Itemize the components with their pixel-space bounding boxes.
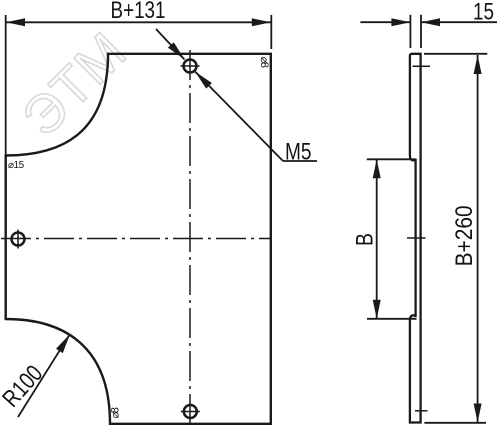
- vertical centerline through holes: [189, 50, 191, 428]
- extension line left: [5, 15, 7, 155]
- arrowhead bottom: [373, 300, 381, 319]
- arrowhead at hole: [168, 42, 185, 59]
- arrowhead right: [252, 18, 271, 26]
- leader line: [156, 29, 185, 60]
- watermark ETM logo text: [11, 21, 138, 148]
- leader M5 with label: [195, 72, 317, 166]
- arrowhead left: [391, 18, 410, 26]
- leader R100 with label: [0, 334, 70, 417]
- svg-text:15: 15: [473, 0, 494, 26]
- arrowhead top: [373, 159, 381, 178]
- hole circle: [12, 233, 25, 246]
- extension line bottom: [424, 422, 486, 424]
- svg-text:B: B: [352, 233, 379, 246]
- svg-text:⌀8: ⌀8: [109, 407, 121, 418]
- hole circle: [184, 60, 197, 73]
- dimension line right segment: [421, 21, 497, 23]
- dimension B side view: [352, 159, 417, 318]
- arrowhead top: [474, 55, 482, 74]
- side view centerline tick middle: [407, 237, 426, 239]
- arrowhead right: [421, 18, 440, 26]
- dimension B+131: [6, 0, 272, 155]
- horizontal centerline: [1, 238, 271, 240]
- extension line left: [409, 15, 411, 48]
- arrowhead at arc: [56, 334, 70, 353]
- side view outline: [410, 54, 421, 423]
- side view centerline tick bottom: [415, 410, 428, 412]
- svg-text:B+260: B+260: [451, 205, 478, 266]
- side view centerline tick top: [413, 65, 431, 67]
- leader shelf: [283, 160, 317, 162]
- hole circle: [184, 405, 197, 418]
- svg-text:⌀15: ⌀15: [8, 160, 25, 171]
- extension line right: [270, 15, 272, 49]
- svg-text:⌀8: ⌀8: [258, 57, 270, 68]
- arrowhead bottom: [474, 404, 482, 423]
- leader line: [18, 334, 70, 417]
- leader arrow upper to M5 hole: [156, 29, 185, 60]
- dimension line: [376, 159, 378, 318]
- dimension line left segment: [360, 21, 410, 23]
- svg-text:M5: M5: [285, 139, 312, 166]
- dimension line: [6, 21, 271, 23]
- extension line right: [420, 15, 422, 48]
- arrowhead left: [6, 18, 25, 26]
- extension line top: [367, 158, 416, 160]
- front view plate outline: [6, 54, 271, 424]
- extension line top: [424, 53, 487, 55]
- extension line bottom: [367, 318, 417, 320]
- dimension line: [477, 55, 479, 423]
- crosshair tick: [181, 411, 200, 413]
- svg-text:B+131: B+131: [111, 0, 166, 24]
- dimension B+260 side view: [424, 54, 487, 423]
- hole M5 top: [181, 60, 200, 73]
- leader line: [195, 72, 283, 162]
- crosshair tick: [181, 65, 200, 67]
- crosshair tick: [17, 230, 19, 249]
- arrowhead at hole: [195, 72, 212, 89]
- hole bottom: [181, 405, 200, 418]
- dimension 15: [360, 0, 497, 48]
- hole left: [12, 230, 25, 249]
